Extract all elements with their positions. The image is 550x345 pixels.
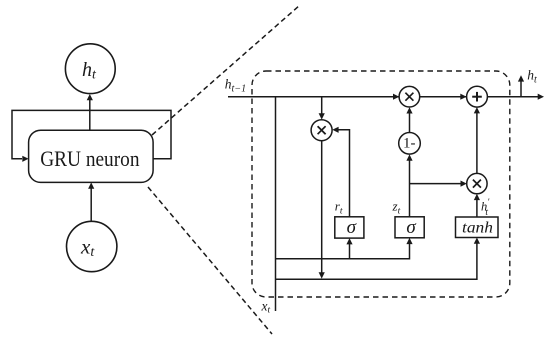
node h_t output circle (65, 44, 115, 94)
wire tanh to candidate multiply (474, 194, 480, 217)
svg-text:′: ′ (487, 198, 490, 208)
dashed projection line upper (152, 5, 300, 135)
wire 1- to top multiply (406, 107, 412, 132)
svg-text:xt: xt (80, 234, 95, 260)
svg-text:σ: σ (347, 217, 357, 238)
wire candidate multiply to add (474, 107, 480, 173)
wire r_t feedback to multiply (332, 127, 349, 217)
sigma box z gate (395, 217, 424, 238)
add node (467, 86, 488, 107)
wire z branch to candidate multiply (410, 181, 467, 187)
wire bottom feed to sigma gates (276, 238, 413, 259)
wire reset multiply output down (319, 141, 325, 279)
wire GRU box to h_t (87, 94, 93, 130)
multiply node update gate (399, 86, 420, 107)
multiply node candidate (467, 173, 487, 193)
svg-text:xt: xt (261, 298, 271, 315)
svg-text:ht: ht (527, 68, 537, 86)
svg-text:rt: rt (335, 199, 343, 217)
wire to reset multiply (319, 97, 325, 120)
GRU neuron box (29, 130, 154, 182)
svg-text:ht: ht (82, 59, 97, 83)
svg-text:1-: 1- (403, 135, 416, 151)
wire h_t output up (518, 75, 524, 96)
wire x_t to GRU box (88, 182, 94, 221)
wire bottom feed to tanh (276, 238, 481, 280)
svg-text:zt: zt (392, 199, 401, 217)
wire x_t vertical (275, 97, 277, 311)
dashed GRU internals boundary (252, 71, 510, 297)
dashed projection line lower (148, 187, 272, 334)
feedback loop wire (12, 110, 171, 161)
sigma box r gate (335, 217, 364, 238)
tanh box (456, 217, 499, 238)
svg-text:GRU neuron: GRU neuron (40, 146, 139, 171)
svg-text:t: t (485, 208, 488, 218)
svg-text:tanh: tanh (462, 220, 493, 237)
node 1 minus z (399, 133, 421, 155)
multiply node reset gate (311, 120, 332, 141)
wire z_t up to 1- node (406, 154, 412, 216)
node x_t input circle (67, 221, 117, 271)
wire h_t-1 main line (228, 94, 544, 100)
svg-text:σ: σ (406, 217, 416, 238)
svg-text:ht−1: ht−1 (225, 77, 246, 95)
